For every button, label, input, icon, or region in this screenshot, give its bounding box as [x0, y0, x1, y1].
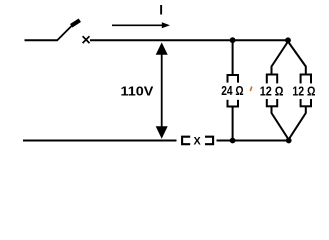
switch contact mark x — [83, 36, 90, 43]
svg-text:X: X — [193, 135, 201, 147]
resistor R1 box — [218, 75, 248, 107]
wire: top-left feed segment — [25, 39, 58, 41]
svg-text:24 Ω: 24 Ω — [221, 83, 243, 98]
wire: top bus — [90, 39, 288, 41]
wire: R3 bottom to node — [289, 106, 306, 139]
wire: diagonal top to R2 — [272, 42, 289, 76]
node junction: top of 12ohm pair — [285, 37, 291, 43]
switch S1 (open blade) — [57, 20, 80, 40]
node junction: top of 24ohm branch — [230, 37, 236, 43]
current arrow — [112, 22, 170, 28]
svg-text:110V: 110V — [121, 84, 154, 99]
svg-text:12 Ω: 12 Ω — [260, 84, 284, 99]
wire: bottom middle segment — [217, 140, 289, 142]
voltage double arrow — [156, 42, 168, 138]
element X left bracket — [182, 137, 190, 145]
wire: diagonal top to R3 — [288, 42, 306, 76]
element X right bracket — [205, 137, 213, 145]
wire: 24ohm branch lower — [232, 107, 234, 141]
wire: 24ohm branch upper — [232, 40, 234, 75]
wire: bottom-left segment — [23, 140, 177, 142]
wire: R2 bottom to node — [272, 106, 289, 139]
resistor R3 box — [292, 75, 319, 107]
node junction: bottom of 24ohm branch — [230, 138, 236, 144]
stray orange tick — [250, 87, 252, 92]
resistor R2 box — [259, 75, 286, 107]
svg-text:I: I — [159, 3, 163, 18]
node junction: bottom of 12ohm pair — [286, 138, 292, 144]
svg-text:12 Ω: 12 Ω — [292, 84, 315, 99]
